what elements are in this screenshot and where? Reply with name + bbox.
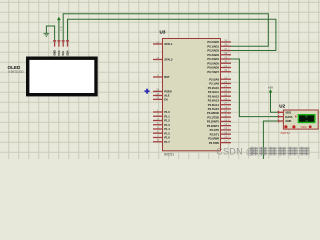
svg-text:XTAL2: XTAL2 bbox=[164, 58, 173, 62]
svg-text:P0.0/AD0: P0.0/AD0 bbox=[207, 40, 219, 44]
svg-text:P1.5: P1.5 bbox=[164, 131, 170, 135]
svg-text:VDD: VDD bbox=[285, 111, 291, 115]
svg-text:P2.7/A15: P2.7/A15 bbox=[208, 107, 220, 111]
svg-text:DATA: DATA bbox=[285, 115, 292, 119]
svg-text:EA: EA bbox=[164, 98, 168, 102]
svg-text:80C51: 80C51 bbox=[164, 153, 174, 157]
svg-text:P1.3: P1.3 bbox=[164, 123, 170, 127]
svg-text:P3.1/TXD: P3.1/TXD bbox=[207, 115, 219, 119]
svg-text:PSEN: PSEN bbox=[164, 90, 171, 94]
svg-text:P0.3/AD3: P0.3/AD3 bbox=[207, 53, 219, 57]
svg-text:P1.7: P1.7 bbox=[164, 140, 170, 144]
svg-text:SCL: SCL bbox=[61, 50, 65, 56]
svg-text:P3.2/INT0: P3.2/INT0 bbox=[207, 120, 220, 124]
svg-text:P3.3/INT1: P3.3/INT1 bbox=[207, 124, 220, 128]
svg-text:DHT11: DHT11 bbox=[281, 131, 291, 135]
svg-text:%RH: %RH bbox=[301, 125, 307, 129]
svg-text:P3.4/T0: P3.4/T0 bbox=[210, 128, 220, 132]
svg-text:P1.1: P1.1 bbox=[164, 114, 170, 118]
svg-text:P3.5/T1: P3.5/T1 bbox=[210, 132, 220, 136]
svg-text:P0.7/AD7: P0.7/AD7 bbox=[207, 70, 219, 74]
svg-text:P3.6/WR: P3.6/WR bbox=[208, 137, 219, 141]
svg-text:P0.4/AD4: P0.4/AD4 bbox=[207, 57, 219, 61]
svg-text:CSDN @: CSDN @ bbox=[216, 147, 255, 157]
svg-text:P3.0/RXD: P3.0/RXD bbox=[207, 111, 219, 115]
svg-text:P0.2/AD2: P0.2/AD2 bbox=[207, 49, 219, 53]
svg-text:P2.4/A12: P2.4/A12 bbox=[208, 94, 220, 98]
svg-text:P0.1/AD1: P0.1/AD1 bbox=[207, 44, 219, 48]
svg-text:U3: U3 bbox=[160, 30, 166, 35]
svg-text:ALE: ALE bbox=[164, 94, 170, 98]
svg-text:P0.6/AD6: P0.6/AD6 bbox=[207, 66, 219, 70]
svg-text:P2.1/A9: P2.1/A9 bbox=[209, 82, 219, 86]
svg-text:P3.7/RD: P3.7/RD bbox=[209, 141, 219, 145]
svg-text:P2.5/A13: P2.5/A13 bbox=[208, 99, 220, 103]
svg-text:P2.6/A14: P2.6/A14 bbox=[208, 103, 220, 107]
svg-text:P1.6: P1.6 bbox=[164, 136, 170, 140]
svg-text:P2.3/A11: P2.3/A11 bbox=[208, 90, 220, 94]
svg-text:SDA: SDA bbox=[65, 50, 69, 56]
svg-text:P1.0: P1.0 bbox=[164, 110, 170, 114]
svg-text:VCC: VCC bbox=[57, 50, 61, 56]
svg-text:0.96'OLED: 0.96'OLED bbox=[8, 70, 24, 74]
svg-text:OLED: OLED bbox=[8, 65, 21, 70]
svg-text:P2.2/A10: P2.2/A10 bbox=[208, 86, 220, 90]
svg-text:GND: GND bbox=[285, 119, 291, 123]
svg-text:P1.2: P1.2 bbox=[164, 119, 170, 123]
svg-text:XTAL1: XTAL1 bbox=[164, 42, 173, 46]
svg-text:+5V: +5V bbox=[268, 85, 273, 89]
svg-text:GND: GND bbox=[53, 50, 57, 56]
svg-text:P2.0/A8: P2.0/A8 bbox=[209, 77, 219, 81]
svg-text:P1.4: P1.4 bbox=[164, 127, 170, 131]
svg-text:RST: RST bbox=[164, 75, 170, 79]
svg-text:P0.5/AD5: P0.5/AD5 bbox=[207, 61, 219, 65]
svg-text:U2: U2 bbox=[279, 103, 285, 108]
